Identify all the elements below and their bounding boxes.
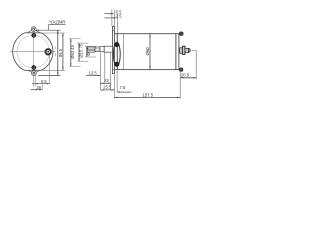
svg-text:7.5: 7.5 xyxy=(120,85,126,90)
svg-text:22: 22 xyxy=(104,78,109,83)
svg-text:13.5: 13.5 xyxy=(89,70,98,75)
svg-text:2.5: 2.5 xyxy=(116,14,122,19)
svg-text:6.5: 6.5 xyxy=(41,79,47,84)
svg-text:20.5: 20.5 xyxy=(181,72,190,77)
svg-text:Ø60: Ø60 xyxy=(145,47,150,56)
svg-text:26: 26 xyxy=(37,85,42,90)
svg-text:86.5: 86.5 xyxy=(58,48,63,57)
svg-text:157.5: 157.5 xyxy=(142,92,153,97)
svg-text:25.5: 25.5 xyxy=(103,85,112,90)
svg-text:Ø15.75: Ø15.75 xyxy=(79,43,84,57)
svg-text:Ø63.45: Ø63.45 xyxy=(70,44,75,58)
svg-text:+(A2)MR: +(A2)MR xyxy=(49,19,66,24)
